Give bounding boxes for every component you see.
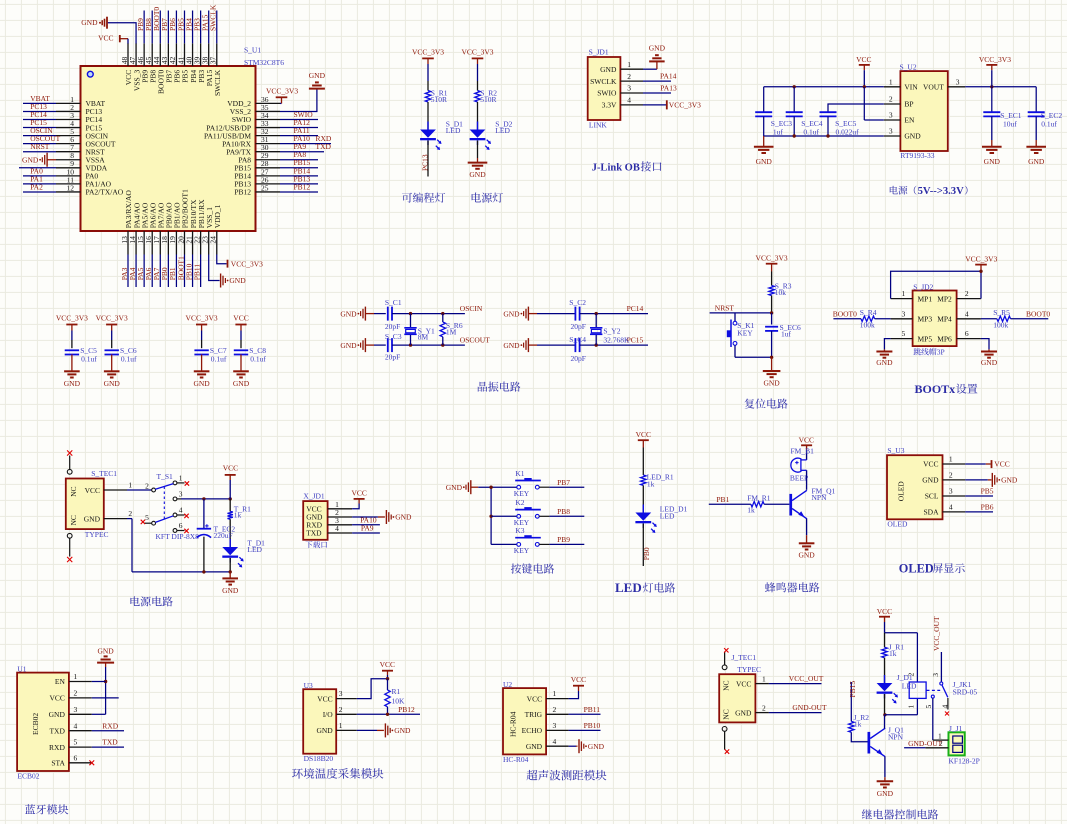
typec pin 1 VCC: [104, 489, 127, 491]
svg-text:SDA: SDA: [923, 508, 939, 517]
wire PA4: [135, 255, 137, 288]
capacitor S_EC3: [755, 111, 772, 113]
svg-text:RXD: RXD: [49, 743, 65, 752]
svg-text:VCC: VCC: [636, 430, 651, 439]
svg-text:GND: GND: [64, 379, 81, 388]
wire OSCIN: [392, 313, 465, 315]
wire PA7: [159, 255, 161, 288]
svg-text:VCC: VCC: [877, 607, 892, 616]
svg-text:2: 2: [553, 705, 557, 714]
svg-text:5V-->3.3V: 5V-->3.3V: [918, 186, 964, 197]
ground download: [385, 510, 387, 524]
wire to C3: [374, 344, 386, 346]
svg-text:VCC: VCC: [736, 679, 751, 688]
wire PB10: [192, 255, 194, 288]
svg-text:ECB02: ECB02: [31, 713, 40, 735]
wire contact to J_J1: [932, 698, 934, 740]
svg-text:1uf: 1uf: [781, 330, 792, 339]
title relay control circuit: [862, 809, 938, 819]
svg-text:MP4: MP4: [937, 315, 952, 324]
switch pin6 stub: [177, 530, 185, 532]
mcu pin 27 PB14: [256, 175, 281, 177]
mcu pin 36 VDD_2: [256, 102, 281, 104]
svg-text:8M: 8M: [418, 333, 429, 342]
wire PA6: [151, 255, 153, 288]
svg-text:1: 1: [553, 689, 557, 698]
mcu pin 15 PA5/AO: [143, 231, 145, 255]
ground oled: [991, 473, 993, 487]
wire PA9 download: [352, 532, 380, 534]
ground at VSS_2: [316, 88, 318, 90]
wire PA12: [280, 127, 318, 129]
svg-text:BOOTx: BOOTx: [915, 382, 956, 396]
svg-text:1: 1: [128, 480, 132, 489]
mcu pin 25 PB12: [256, 191, 281, 193]
svg-text:GND: GND: [104, 379, 121, 388]
capacitor S_EC1: [983, 111, 1000, 113]
ds18b20 pin 3 VCC: [336, 698, 357, 700]
ground buzzer: [799, 542, 815, 544]
wire PB1: [175, 255, 177, 288]
svg-text:100k: 100k: [860, 320, 875, 329]
svg-text:4: 4: [74, 721, 78, 730]
regulator S_U2 body: [900, 71, 947, 151]
wire BOOT0: [159, 11, 161, 44]
svg-text:LED: LED: [660, 512, 675, 521]
wire T_D1 down: [229, 558, 231, 572]
wire PB9: [143, 11, 145, 44]
resistor S_R3: [769, 286, 774, 296]
wire EC4 top: [793, 87, 795, 112]
svg-text:VCC_3V3: VCC_3V3: [756, 254, 788, 263]
svg-text:1k: 1k: [234, 511, 242, 520]
ground bootx right: [988, 349, 990, 351]
mcu pin 30 PA9/TX: [256, 151, 281, 153]
ground reset: [771, 357, 773, 370]
svg-text:LED: LED: [495, 126, 510, 135]
wire PB14: [280, 175, 318, 177]
svg-text:PC13: PC13: [420, 154, 429, 171]
ground S_C8: [233, 370, 249, 372]
svg-text:S_R4: S_R4: [860, 308, 877, 317]
svg-text:OLED: OLED: [887, 520, 908, 529]
capacitor S_C3: [387, 338, 389, 352]
svg-text:4: 4: [949, 503, 953, 512]
wire EN tie: [863, 87, 865, 120]
wire PB5: [965, 495, 993, 497]
mcu pin 16 PA6/AO: [151, 231, 153, 255]
svg-text:VCC: VCC: [49, 694, 64, 703]
svg-text:1: 1: [907, 705, 916, 709]
svg-text:510R: 510R: [480, 95, 496, 104]
svg-text:TXD: TXD: [316, 142, 332, 151]
svg-text:VCC: VCC: [85, 486, 100, 495]
svg-text:TXD: TXD: [306, 529, 322, 538]
svg-text:S_EC2: S_EC2: [1041, 111, 1063, 120]
bt pin 5 RXD: [69, 746, 92, 748]
wire PB10: [569, 729, 601, 731]
svg-text:PB6: PB6: [981, 503, 994, 512]
svg-text:GND: GND: [233, 379, 250, 388]
svg-text:PB12: PB12: [398, 705, 415, 714]
svg-text:S_JD1: S_JD1: [589, 47, 609, 56]
svg-text:GND: GND: [222, 586, 239, 595]
title buzzer circuit: [765, 582, 819, 592]
svg-text:GND: GND: [922, 476, 939, 485]
mcu pin 18 PB0/AO: [167, 231, 169, 255]
wire PC14: [580, 313, 648, 315]
svg-text:EN: EN: [55, 677, 66, 686]
relay link dashed: [927, 689, 941, 691]
jtec pin 2 GND: [755, 712, 769, 714]
ground keys: [470, 480, 472, 494]
mcu pin 46 PB9: [143, 43, 145, 66]
title power 5V to 3.3V: [890, 186, 917, 195]
mcu pin 14 PA4/AO: [135, 231, 137, 255]
typec shell bottom: [67, 533, 72, 538]
ds18b20 pin 2 I/O: [336, 713, 357, 715]
title ultrasonic module: [527, 770, 607, 781]
regulator pin 3 GND: [884, 135, 901, 137]
svg-text:GND: GND: [503, 341, 520, 350]
svg-text:VCC: VCC: [856, 55, 871, 64]
mcu pin 40 PB4: [192, 43, 194, 66]
download pin 3 RXD: [328, 524, 353, 526]
wire VSS_1 to ground: [209, 255, 220, 281]
mcu pin 29 PA8: [256, 159, 281, 161]
ground S_C5: [64, 370, 80, 372]
wire to C4: [537, 344, 575, 346]
svg-text:0.1uf: 0.1uf: [211, 355, 227, 364]
relay contact NO nc: [947, 698, 949, 710]
svg-text:MP6: MP6: [937, 334, 952, 343]
svg-text:2: 2: [965, 289, 969, 298]
wire VOUT rail: [965, 86, 1036, 88]
svg-text:SWCLK: SWCLK: [590, 77, 617, 86]
svg-text:0.022uf: 0.022uf: [836, 128, 860, 137]
svg-text:VCC: VCC: [994, 460, 1009, 469]
connector X_JD1 value: [306, 541, 328, 548]
terminal J_J1 body: [949, 732, 965, 755]
svg-text:6: 6: [74, 753, 78, 762]
capacitor S_EC2: [1035, 87, 1037, 112]
svg-text:4: 4: [941, 705, 950, 709]
led T_D1: [229, 539, 231, 547]
svg-text:S_Y2: S_Y2: [603, 326, 620, 335]
svg-text:GND: GND: [229, 276, 246, 285]
download pin 2 GND: [328, 516, 353, 518]
svg-text:0.1uf: 0.1uf: [1041, 120, 1057, 129]
wire EC1: [991, 87, 993, 112]
regulator pin 2 BP: [884, 103, 901, 105]
ground for S_C1: [364, 307, 366, 321]
svg-text:VCC: VCC: [233, 314, 248, 323]
svg-text:MP1: MP1: [918, 294, 933, 303]
svg-text:25: 25: [261, 183, 269, 192]
mcu U1 body: [81, 66, 256, 231]
svg-text:1: 1: [179, 474, 183, 483]
svg-text:K2: K2: [515, 498, 524, 507]
wire buzzer to collector: [806, 470, 808, 490]
crystal S_Y2: [595, 314, 597, 328]
wire PB1: [709, 503, 751, 505]
svg-text:VCC: VCC: [380, 660, 395, 669]
capacitor S_EC4: [786, 111, 803, 113]
wire SWCLK: [216, 11, 218, 44]
connector S_JD1 body: [588, 57, 621, 120]
svg-text:GND: GND: [763, 379, 780, 388]
wire R3 to NRST: [771, 296, 773, 313]
wire pin4 to R5: [981, 318, 997, 320]
jumper pins 5 6: [891, 338, 913, 340]
transistor FM_Q1: [789, 494, 792, 516]
wire to C1: [374, 313, 386, 315]
svg-text:VCC_3V3: VCC_3V3: [56, 314, 88, 323]
mcu pin 5 OSCIN: [56, 135, 81, 137]
svg-text:10uf: 10uf: [1003, 120, 1017, 129]
mcu pin 45 PB8: [151, 43, 153, 66]
wire S_C5 bottom: [71, 355, 73, 372]
bt pin 4 TXD: [69, 730, 92, 732]
wire bt gnd trunk: [105, 667, 107, 714]
wire J_R1 to J_D1: [884, 658, 886, 683]
svg-text:PC14: PC14: [627, 304, 644, 313]
wire bottom rail: [132, 571, 230, 573]
svg-text:PB11: PB11: [192, 264, 201, 281]
svg-text:GND: GND: [526, 742, 543, 751]
mcu pin 20 PB2/BOOT1: [183, 231, 185, 255]
bt pin 3 GND: [69, 713, 92, 715]
oled pin 4 SDA: [943, 511, 966, 513]
svg-text:PA13: PA13: [660, 84, 677, 93]
resistor S_R2: [475, 91, 480, 103]
svg-text:OSCOUT: OSCOUT: [460, 336, 490, 345]
ground S_C6: [104, 370, 120, 372]
svg-text:0.1uf: 0.1uf: [250, 355, 266, 364]
mcu pin 28 PB15: [256, 167, 281, 169]
svg-text:6: 6: [179, 521, 183, 530]
capacitor S_C5: [65, 349, 79, 351]
svg-text:3: 3: [889, 127, 893, 136]
jumper pins 1 2: [891, 298, 913, 300]
download pin 1 VCC: [328, 508, 353, 510]
module U1 body: [17, 673, 69, 771]
svg-text:S_JD2: S_JD2: [913, 283, 933, 292]
wire oled gnd: [965, 479, 988, 481]
wire PA0: [23, 175, 56, 177]
svg-text:20pF: 20pF: [385, 322, 400, 331]
wire PB8: [539, 515, 549, 517]
mcu pin 26 PB13: [256, 183, 281, 185]
wire relay coil feed: [885, 632, 918, 634]
svg-text:3: 3: [902, 309, 906, 318]
svg-text:TXD: TXD: [49, 726, 65, 735]
svg-text:K3: K3: [515, 526, 524, 535]
svg-text:KEY: KEY: [514, 489, 530, 498]
svg-text:220uF: 220uF: [214, 531, 233, 540]
ground ds18b20: [384, 723, 386, 737]
svg-text:GND: GND: [84, 514, 101, 523]
svg-text:GND: GND: [1001, 476, 1018, 485]
power VCC_3V3 at VDD_2 pin 36: [280, 102, 282, 104]
wire LED_R1 to LED_D1: [642, 485, 644, 512]
svg-text:NC: NC: [722, 680, 731, 690]
mcu pin 19 PB1/AO: [175, 231, 177, 255]
svg-text:NC: NC: [69, 486, 78, 496]
wire PC15: [23, 127, 56, 129]
wire 3.3V: [643, 104, 666, 106]
svg-text:VCC_3V3: VCC_3V3: [266, 87, 298, 96]
svg-text:VCC: VCC: [223, 464, 238, 473]
wire keys trunk: [478, 486, 517, 488]
mcu pin 35 VSS_2: [256, 110, 281, 112]
svg-text:VCC_OUT: VCC_OUT: [932, 616, 941, 651]
wire R2 top: [477, 64, 479, 81]
wire gnd rail: [763, 116, 765, 136]
mcu pin 13 PA3/RX/AO: [127, 231, 129, 255]
wire VSS_3 gnd: [108, 23, 136, 44]
svg-text:2: 2: [949, 471, 953, 480]
svg-text:X_JD1: X_JD1: [303, 492, 325, 501]
mcu pin 6 OSCOUT: [56, 143, 81, 145]
svg-text:NPN: NPN: [888, 733, 904, 742]
svg-text:GND: GND: [735, 708, 752, 717]
jtec shell bottom: [722, 727, 727, 732]
wire typec gnd: [127, 518, 132, 520]
wire download gnd: [352, 516, 378, 518]
button K1: [517, 485, 521, 489]
hcr04 pin 1 VCC: [546, 698, 569, 700]
svg-text:3: 3: [553, 721, 557, 730]
svg-text:PA2/TX/AO: PA2/TX/AO: [86, 188, 124, 197]
switch pin5 nc: [145, 522, 152, 524]
svg-text:2: 2: [145, 481, 149, 490]
ground relay: [877, 780, 894, 782]
mcu pin 34 SWIO: [256, 119, 281, 121]
svg-text:OLED: OLED: [899, 561, 934, 575]
bt pin 1 EN: [69, 681, 92, 683]
ground S_C7: [194, 370, 210, 372]
svg-text:GND-OUT: GND-OUT: [908, 739, 943, 748]
svg-text:K1: K1: [515, 469, 524, 478]
svg-text:ECB02: ECB02: [17, 771, 39, 780]
svg-text:20pF: 20pF: [571, 354, 586, 363]
hcr04 pin 4 GND: [546, 745, 569, 747]
ds18b20 pin 1 GND: [336, 729, 357, 731]
wire R1 top: [427, 64, 429, 81]
title crystal circuit: [478, 382, 521, 392]
jj1 pin 2: [925, 747, 948, 749]
svg-text:J_J1: J_J1: [949, 724, 963, 733]
wire SWIO: [280, 119, 318, 121]
svg-text:TXD: TXD: [102, 738, 118, 747]
svg-text:VOUT: VOUT: [923, 83, 944, 92]
ground EC1: [991, 116, 993, 140]
wire to LED_R1: [642, 448, 644, 476]
svg-text:MP2: MP2: [937, 294, 952, 303]
svg-text:VCC_3V3: VCC_3V3: [96, 314, 128, 323]
svg-text:S_U2: S_U2: [900, 63, 917, 72]
mcu pin 41 PB5: [183, 43, 185, 66]
svg-text:0.1uf: 0.1uf: [121, 355, 137, 364]
svg-text:TRIG: TRIG: [525, 710, 543, 719]
svg-text:GND: GND: [600, 65, 617, 74]
wire to T_R1: [229, 499, 231, 512]
capacitor T_EC2: [203, 499, 205, 529]
capacitor S_EC5: [820, 111, 837, 113]
svg-text:10k: 10k: [775, 288, 787, 297]
wire S_C7 bottom: [201, 355, 203, 372]
wire ds18b20 gnd: [357, 729, 377, 731]
wire pin6 gnd: [981, 339, 989, 350]
wire jlink gnd: [643, 68, 657, 70]
led LED_D1: [642, 505, 644, 513]
hcr04 pin 2 TRIG: [546, 713, 569, 715]
svg-text:PB8: PB8: [557, 507, 570, 516]
wire PB11: [569, 713, 601, 715]
svg-text:1k: 1k: [854, 719, 862, 728]
mcu pin 39 PB3: [200, 43, 202, 66]
svg-text:VCC_3V3: VCC_3V3: [412, 48, 444, 57]
wire bootx loop: [891, 271, 981, 298]
capacitor S_C2: [574, 307, 576, 321]
mcu pin 11 PA1/AO: [56, 183, 81, 185]
svg-text:1: 1: [74, 672, 78, 681]
wire I/O PB12: [357, 713, 420, 715]
wire PB8: [151, 11, 153, 44]
typec pin 2 GND: [104, 518, 127, 520]
svg-text:2: 2: [627, 72, 631, 81]
connector J_TEC1 body: [719, 674, 755, 722]
svg-text:NC: NC: [722, 709, 731, 719]
hcr04 pin 3 ECHO: [546, 729, 569, 731]
typec shell top: [67, 469, 72, 474]
svg-text:GND: GND: [469, 170, 486, 179]
wire bt rxd: [92, 746, 124, 748]
module U3 body: [303, 689, 336, 754]
svg-text:KEY: KEY: [737, 328, 753, 337]
svg-text:S_C1: S_C1: [385, 298, 402, 307]
svg-text:SRD-05: SRD-05: [953, 688, 978, 697]
svg-text:GND: GND: [193, 379, 210, 388]
svg-text:4: 4: [179, 506, 183, 515]
relay J_JK1 coil: [909, 682, 926, 698]
svg-text:GND: GND: [316, 726, 333, 735]
svg-text:VCC_3V3: VCC_3V3: [231, 259, 263, 268]
svg-text:BOOT0: BOOT0: [1026, 309, 1050, 318]
svg-text:S_EC1: S_EC1: [1000, 111, 1022, 120]
svg-text:2: 2: [762, 703, 766, 712]
svg-text:PA14: PA14: [660, 72, 677, 81]
svg-text:NRST: NRST: [30, 142, 50, 151]
svg-text:PB11: PB11: [584, 705, 601, 714]
svg-text:VCC_3V3: VCC_3V3: [461, 48, 493, 57]
resistor S_R6: [442, 314, 444, 322]
svg-text:LED: LED: [615, 580, 642, 595]
wire PB0: [167, 255, 169, 288]
wire bt vcc: [92, 697, 119, 699]
svg-text:GND: GND: [1028, 157, 1045, 166]
wire to J_R1: [884, 633, 886, 648]
svg-text:S_TEC1: S_TEC1: [91, 469, 117, 478]
svg-text:BOOT0: BOOT0: [833, 309, 857, 318]
svg-text:LINK: LINK: [589, 121, 607, 130]
wire NRST row: [710, 312, 772, 314]
connector S_TEC1 body: [66, 479, 104, 530]
wire PB15: [850, 682, 852, 721]
svg-text:20pF: 20pF: [571, 322, 586, 331]
svg-text:37: 37: [209, 57, 218, 65]
